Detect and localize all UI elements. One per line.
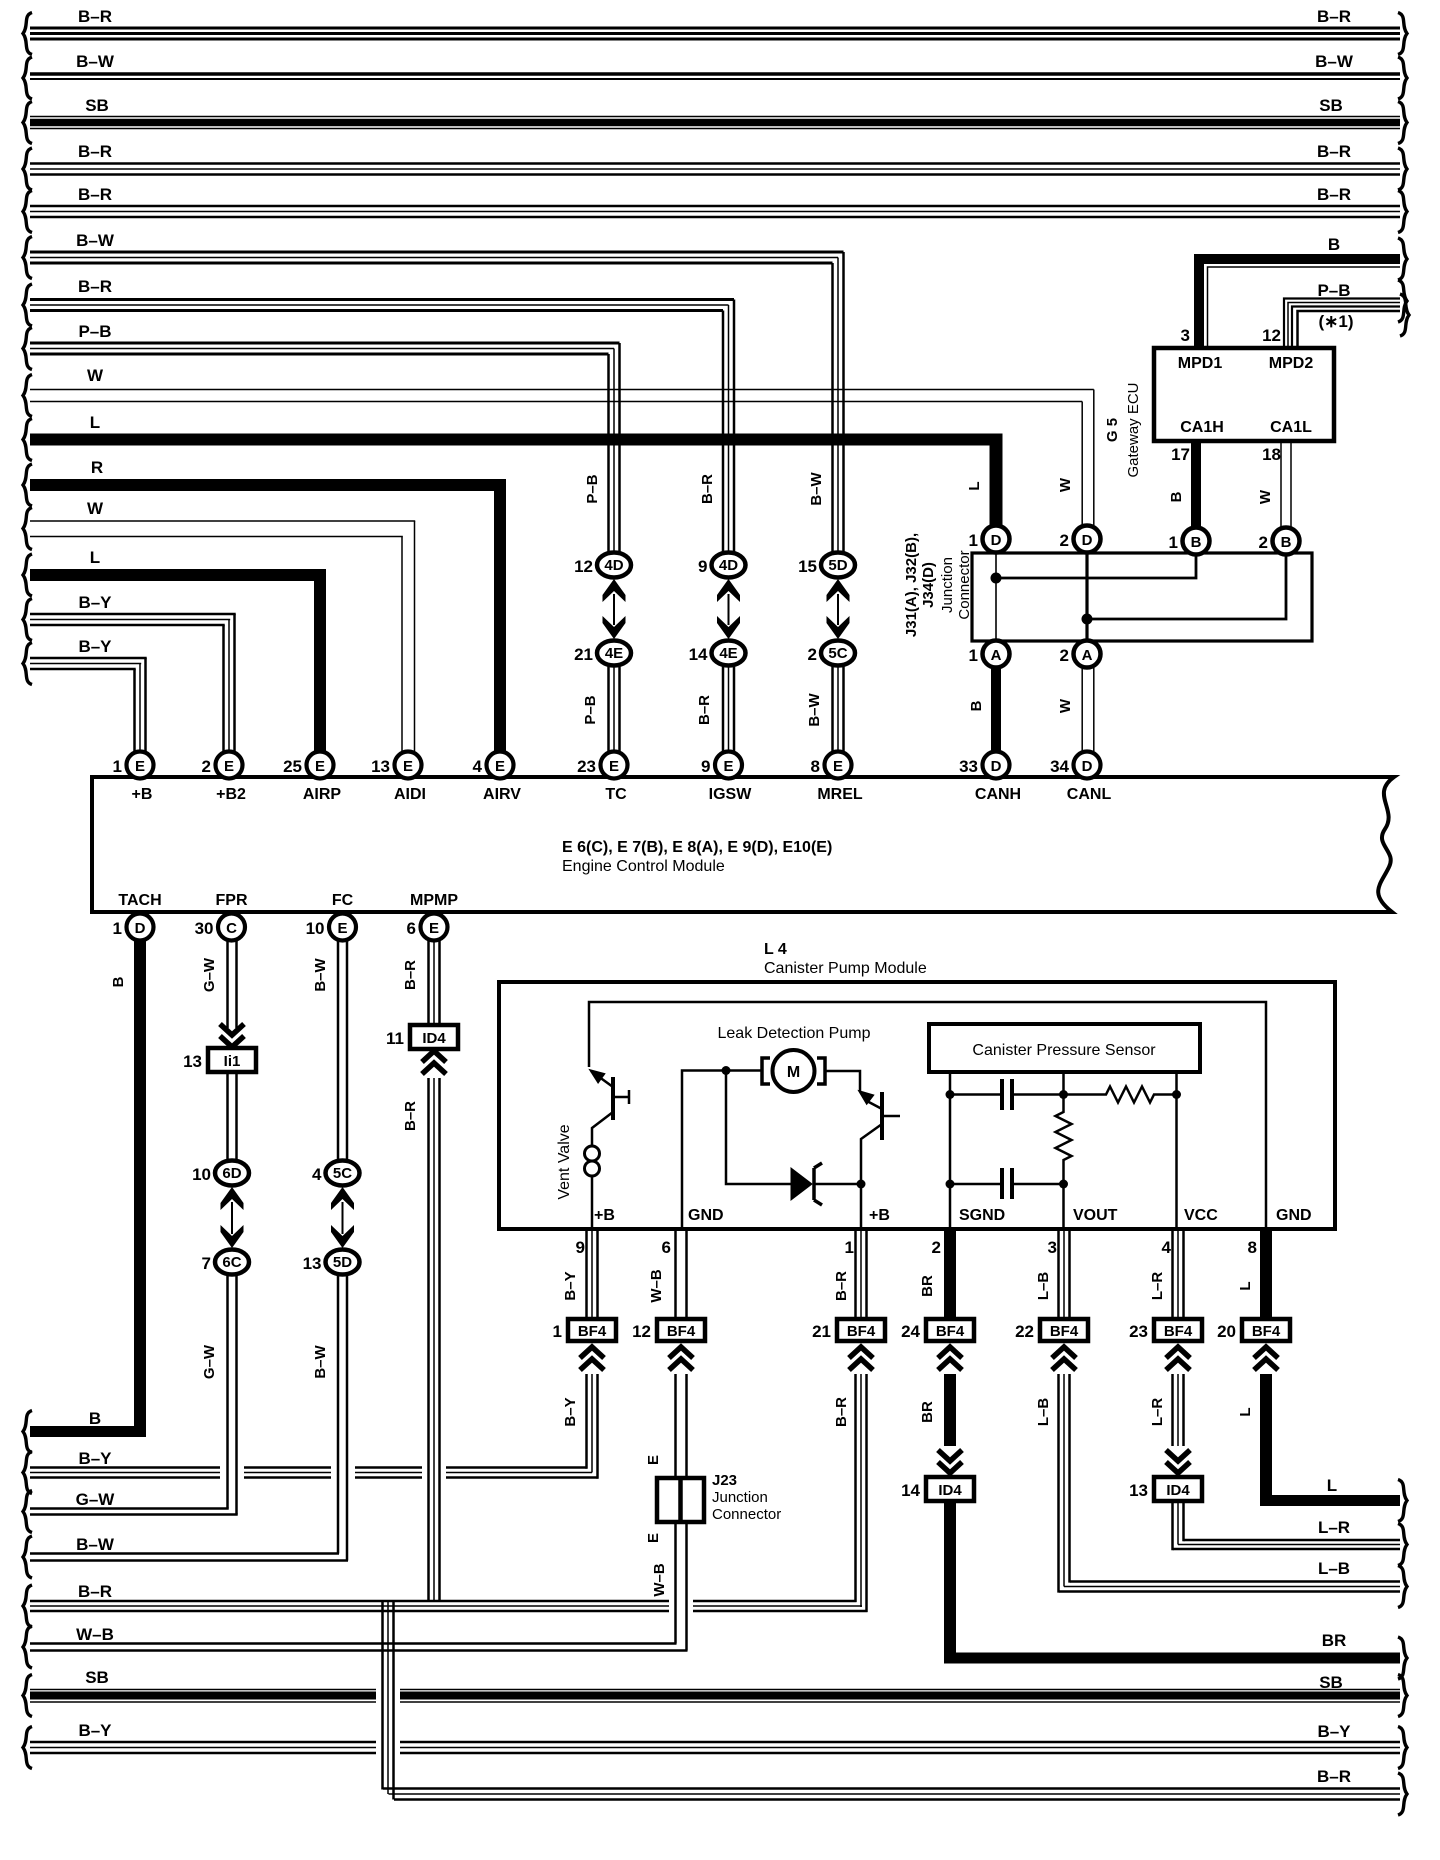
svg-text:24: 24 [901, 1322, 920, 1341]
svg-text:SB: SB [1319, 96, 1343, 115]
svg-text:A: A [1082, 647, 1093, 664]
svg-text:E: E [645, 1533, 662, 1543]
svg-text:CANL: CANL [1067, 786, 1112, 803]
svg-text:VCC: VCC [1184, 1207, 1218, 1224]
svg-text:AIRP: AIRP [303, 786, 342, 803]
svg-text:M: M [787, 1064, 800, 1081]
svg-text:BF4: BF4 [578, 1323, 607, 1340]
svg-text:B–Y: B–Y [78, 593, 112, 612]
svg-text:L–R: L–R [1149, 1398, 1166, 1427]
svg-text:3: 3 [1181, 326, 1190, 345]
svg-text:5D: 5D [333, 1254, 352, 1271]
svg-text:E: E [135, 758, 145, 775]
svg-text:E: E [645, 1455, 662, 1465]
svg-text:P–B: P–B [582, 695, 599, 724]
svg-text:B–R: B–R [78, 277, 112, 296]
svg-text:AIRV: AIRV [483, 786, 521, 803]
svg-text:BR: BR [919, 1275, 936, 1297]
svg-text:E: E [224, 758, 234, 775]
svg-text:J34(D): J34(D) [920, 562, 937, 608]
svg-text:15: 15 [798, 557, 817, 576]
svg-text:IGSW: IGSW [709, 786, 753, 803]
svg-text:2: 2 [808, 645, 817, 664]
svg-text:33: 33 [959, 757, 978, 776]
svg-text:B–R: B–R [1317, 7, 1351, 26]
svg-text:10: 10 [192, 1165, 211, 1184]
svg-text:B–Y: B–Y [562, 1397, 579, 1426]
svg-text:B–R: B–R [78, 1582, 112, 1601]
svg-text:+B: +B [869, 1207, 890, 1224]
svg-text:G 5: G 5 [1104, 418, 1121, 442]
svg-text:B–Y: B–Y [78, 637, 112, 656]
svg-text:1: 1 [113, 757, 122, 776]
svg-text:E: E [315, 758, 325, 775]
svg-text:W: W [1057, 698, 1074, 713]
svg-text:E: E [337, 920, 347, 937]
svg-text:B: B [1281, 534, 1292, 551]
svg-text:ID4: ID4 [1166, 1482, 1190, 1499]
svg-text:3: 3 [1048, 1238, 1057, 1257]
svg-text:BF4: BF4 [1164, 1323, 1193, 1340]
svg-text:GND: GND [688, 1207, 724, 1224]
svg-text:B–R: B–R [833, 1397, 850, 1427]
svg-text:B–R: B–R [78, 7, 112, 26]
svg-text:4D: 4D [604, 557, 623, 574]
svg-text:E: E [495, 758, 505, 775]
svg-text:B–R: B–R [1317, 185, 1351, 204]
svg-text:MREL: MREL [817, 786, 863, 803]
svg-text:A: A [991, 647, 1002, 664]
svg-text:P–B: P–B [78, 322, 111, 341]
svg-text:VOUT: VOUT [1073, 1207, 1118, 1224]
svg-text:4E: 4E [605, 645, 623, 662]
svg-text:6C: 6C [222, 1254, 241, 1271]
svg-text:L–B: L–B [1035, 1272, 1052, 1301]
svg-text:L–R: L–R [1318, 1518, 1350, 1537]
svg-text:2: 2 [1259, 533, 1268, 552]
svg-text:L: L [90, 413, 100, 432]
svg-text:1: 1 [553, 1322, 562, 1341]
svg-text:CA1H: CA1H [1180, 419, 1224, 436]
svg-text:D: D [991, 532, 1002, 549]
svg-text:17: 17 [1171, 445, 1190, 464]
svg-text:B: B [89, 1409, 101, 1428]
svg-text:1: 1 [969, 531, 978, 550]
svg-text:B: B [968, 700, 985, 711]
svg-text:4D: 4D [719, 557, 738, 574]
svg-text:B–R: B–R [1317, 142, 1351, 161]
svg-text:G–W: G–W [76, 1490, 116, 1509]
svg-text:P–B: P–B [584, 474, 601, 503]
svg-text:L: L [90, 548, 100, 567]
svg-text:GND: GND [1276, 1207, 1312, 1224]
svg-text:34: 34 [1050, 757, 1069, 776]
svg-text:8: 8 [1248, 1238, 1257, 1257]
svg-text:6D: 6D [222, 1165, 241, 1182]
svg-text:13: 13 [183, 1052, 202, 1071]
svg-text:2: 2 [1060, 531, 1069, 550]
svg-text:5C: 5C [828, 645, 847, 662]
svg-text:C: C [226, 920, 237, 937]
svg-text:BF4: BF4 [667, 1323, 696, 1340]
svg-text:1: 1 [1169, 533, 1178, 552]
svg-text:9: 9 [701, 757, 710, 776]
svg-text:14: 14 [901, 1481, 920, 1500]
svg-text:B–W: B–W [76, 231, 115, 250]
svg-text:J31(A), J32(B),: J31(A), J32(B), [903, 533, 920, 637]
svg-text:1: 1 [113, 919, 122, 938]
svg-text:BF4: BF4 [847, 1323, 876, 1340]
svg-text:21: 21 [574, 645, 593, 664]
svg-text:20: 20 [1217, 1322, 1236, 1341]
svg-text:B–W: B–W [76, 1535, 115, 1554]
svg-text:L: L [1237, 1407, 1254, 1416]
svg-text:CANH: CANH [975, 786, 1021, 803]
svg-text:12: 12 [1262, 326, 1281, 345]
svg-text:4E: 4E [719, 645, 737, 662]
svg-text:14: 14 [689, 645, 708, 664]
svg-text:B–R: B–R [78, 142, 112, 161]
svg-text:J23: J23 [712, 1472, 737, 1489]
svg-text:Gateway ECU: Gateway ECU [1125, 382, 1142, 477]
svg-text:G–W: G–W [201, 1344, 218, 1379]
svg-text:2: 2 [1060, 646, 1069, 665]
svg-text:SGND: SGND [959, 1207, 1005, 1224]
svg-text:Vent Valve: Vent Valve [556, 1124, 573, 1199]
svg-text:Canister Pump Module: Canister Pump Module [764, 960, 927, 977]
svg-text:L–B: L–B [1318, 1559, 1350, 1578]
svg-text:SB: SB [85, 96, 109, 115]
svg-text:9: 9 [698, 557, 707, 576]
svg-text:MPD1: MPD1 [1178, 355, 1223, 372]
svg-text:5D: 5D [828, 557, 847, 574]
svg-text:L: L [1327, 1476, 1337, 1495]
svg-text:BF4: BF4 [936, 1323, 965, 1340]
svg-text:2: 2 [932, 1238, 941, 1257]
svg-text:E 6(C), E 7(B), E 8(A), E 9(D): E 6(C), E 7(B), E 8(A), E 9(D), E10(E) [562, 839, 832, 856]
svg-text:6: 6 [407, 919, 416, 938]
svg-text:4: 4 [312, 1165, 322, 1184]
svg-text:23: 23 [1129, 1322, 1148, 1341]
svg-text:B–W: B–W [312, 957, 329, 991]
svg-text:B–W: B–W [312, 1344, 329, 1378]
svg-text:Leak Detection Pump: Leak Detection Pump [718, 1025, 871, 1042]
svg-text:B–Y: B–Y [78, 1449, 112, 1468]
svg-text:FPR: FPR [216, 892, 248, 909]
svg-text:Engine Control Module: Engine Control Module [562, 858, 725, 875]
svg-text:12: 12 [574, 557, 593, 576]
svg-text:TC: TC [605, 786, 627, 803]
svg-text:FC: FC [332, 892, 354, 909]
svg-text:W: W [1257, 489, 1274, 504]
svg-text:13: 13 [1129, 1481, 1148, 1500]
svg-text:TACH: TACH [118, 892, 161, 909]
svg-text:Ii1: Ii1 [224, 1053, 241, 1070]
svg-text:MPMP: MPMP [410, 892, 458, 909]
svg-text:ID4: ID4 [938, 1482, 962, 1499]
svg-text:L 4: L 4 [764, 941, 787, 958]
svg-text:D: D [135, 920, 146, 937]
svg-text:B–W: B–W [1315, 52, 1354, 71]
svg-text:B: B [1328, 235, 1340, 254]
svg-text:25: 25 [283, 757, 302, 776]
svg-text:B–R: B–R [402, 960, 419, 990]
svg-text:4: 4 [473, 757, 483, 776]
svg-text:1: 1 [845, 1238, 854, 1257]
svg-text:8: 8 [811, 757, 820, 776]
svg-text:B–Y: B–Y [78, 1721, 112, 1740]
svg-text:22: 22 [1015, 1322, 1034, 1341]
svg-text:B–R: B–R [696, 695, 713, 725]
svg-text:B–R: B–R [833, 1271, 850, 1301]
svg-text:Connector: Connector [712, 1506, 781, 1523]
svg-text:W: W [87, 499, 104, 518]
svg-text:B–W: B–W [808, 471, 825, 505]
svg-text:BF4: BF4 [1050, 1323, 1079, 1340]
svg-text:21: 21 [812, 1322, 831, 1341]
svg-text:W–B: W–B [648, 1269, 665, 1303]
svg-text:BF4: BF4 [1252, 1323, 1281, 1340]
svg-text:5C: 5C [333, 1165, 352, 1182]
svg-text:D: D [991, 758, 1002, 775]
svg-text:9: 9 [576, 1238, 585, 1257]
svg-text:R: R [91, 458, 103, 477]
svg-text:+B: +B [594, 1207, 615, 1224]
svg-text:BR: BR [1322, 1631, 1347, 1650]
svg-text:W: W [87, 366, 104, 385]
svg-text:+B: +B [132, 786, 153, 803]
svg-text:L–R: L–R [1149, 1272, 1166, 1301]
svg-text:Canister Pressure Sensor: Canister Pressure Sensor [972, 1042, 1156, 1059]
svg-text:AIDI: AIDI [394, 786, 426, 803]
svg-text:13: 13 [303, 1254, 322, 1273]
svg-text:Connector: Connector [956, 550, 973, 619]
svg-text:(∗1): (∗1) [1318, 312, 1353, 331]
svg-text:10: 10 [306, 919, 325, 938]
svg-text:L: L [1237, 1281, 1254, 1290]
svg-text:SB: SB [1319, 1673, 1343, 1692]
svg-text:B–W: B–W [76, 52, 115, 71]
svg-text:Junction: Junction [939, 557, 956, 613]
svg-text:ID4: ID4 [422, 1030, 446, 1047]
svg-text:G–W: G–W [201, 957, 218, 992]
svg-text:B–Y: B–Y [562, 1271, 579, 1300]
svg-text:Junction: Junction [712, 1489, 768, 1506]
svg-text:SB: SB [85, 1668, 109, 1687]
svg-text:4: 4 [1162, 1238, 1172, 1257]
svg-text:23: 23 [577, 757, 596, 776]
svg-text:B–Y: B–Y [1317, 1722, 1351, 1741]
svg-text:B: B [1191, 534, 1202, 551]
svg-text:18: 18 [1262, 445, 1281, 464]
svg-text:B: B [1168, 491, 1185, 502]
svg-text:11: 11 [386, 1029, 404, 1048]
svg-text:B–R: B–R [1317, 1767, 1351, 1786]
svg-text:12: 12 [632, 1322, 651, 1341]
svg-text:B–R: B–R [78, 185, 112, 204]
svg-text:W–B: W–B [76, 1625, 114, 1644]
svg-text:CA1L: CA1L [1270, 419, 1312, 436]
svg-text:W–B: W–B [651, 1563, 668, 1597]
svg-text:7: 7 [202, 1254, 211, 1273]
svg-text:1: 1 [969, 646, 978, 665]
svg-text:13: 13 [371, 757, 390, 776]
svg-text:B: B [110, 976, 127, 987]
svg-text:L–B: L–B [1035, 1398, 1052, 1427]
svg-text:P–B: P–B [1317, 281, 1350, 300]
svg-text:E: E [833, 758, 843, 775]
svg-text:D: D [1082, 758, 1093, 775]
svg-text:BR: BR [919, 1401, 936, 1423]
svg-text:MPD2: MPD2 [1269, 355, 1314, 372]
svg-text:E: E [403, 758, 413, 775]
svg-text:6: 6 [662, 1238, 671, 1257]
svg-text:D: D [1082, 532, 1093, 549]
svg-text:30: 30 [195, 919, 214, 938]
svg-text:E: E [723, 758, 733, 775]
svg-text:E: E [429, 920, 439, 937]
svg-text:L: L [966, 481, 983, 490]
svg-text:2: 2 [202, 757, 211, 776]
svg-text:B–R: B–R [699, 474, 716, 504]
svg-text:+B2: +B2 [216, 786, 246, 803]
svg-text:E: E [609, 758, 619, 775]
svg-text:B–W: B–W [806, 692, 823, 726]
svg-text:W: W [1057, 477, 1074, 492]
svg-text:B–R: B–R [402, 1101, 419, 1131]
